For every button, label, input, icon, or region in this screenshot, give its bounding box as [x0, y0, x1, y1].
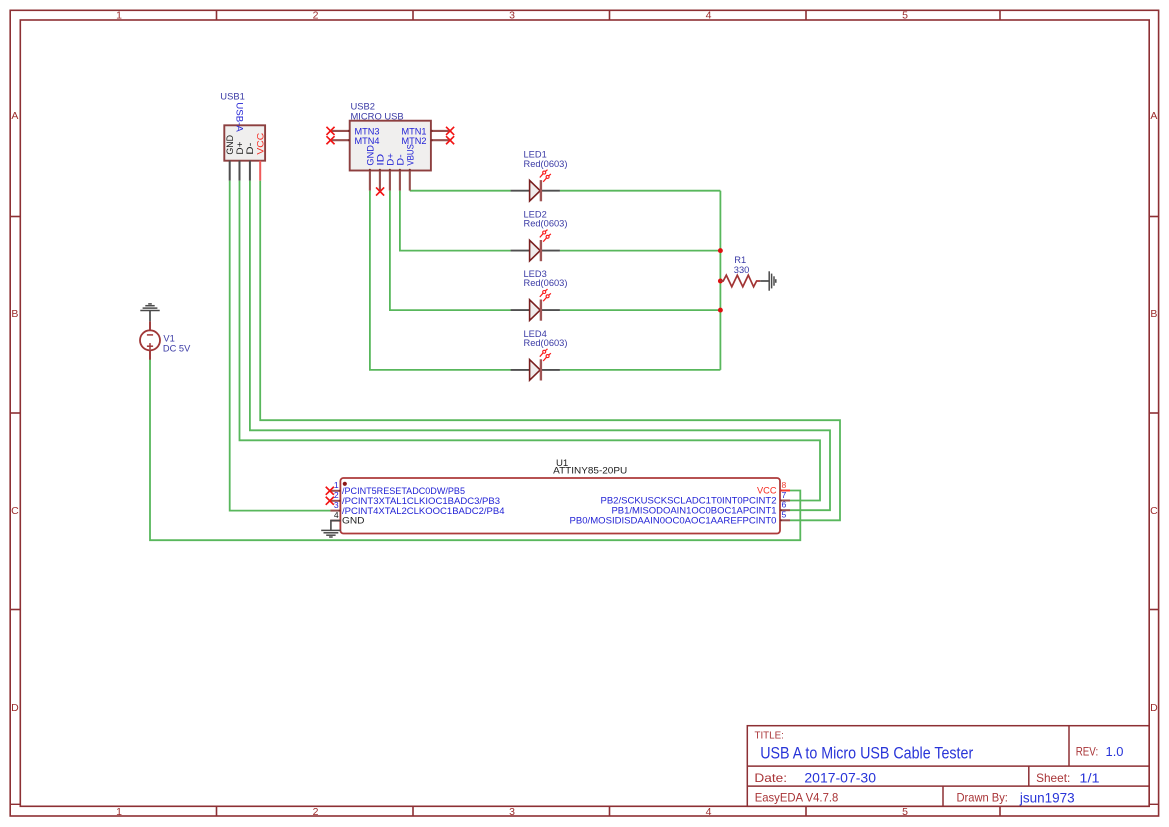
svg-text:USB-A: USB-A [234, 102, 245, 132]
svg-text:3: 3 [509, 806, 515, 818]
svg-text:ID: ID [375, 153, 385, 165]
svg-text:5: 5 [902, 10, 908, 22]
svg-text:330: 330 [734, 265, 750, 275]
svg-text:VCC: VCC [256, 132, 266, 154]
svg-text:GND: GND [365, 145, 375, 166]
svg-text:6: 6 [782, 500, 787, 510]
svg-text:2: 2 [334, 490, 339, 500]
svg-text:D-: D- [395, 154, 405, 165]
svg-text:VCC: VCC [757, 486, 777, 496]
svg-text:D: D [1150, 702, 1158, 714]
svg-text:jsun1973: jsun1973 [1019, 791, 1075, 806]
svg-text:REV:: REV: [1076, 744, 1099, 758]
svg-text:MTN4: MTN4 [355, 136, 380, 146]
svg-text:C: C [1150, 505, 1158, 517]
svg-text:5: 5 [782, 510, 787, 520]
svg-text:D+: D+ [235, 142, 245, 155]
svg-text:Date:: Date: [754, 771, 787, 785]
svg-text:USB A to Micro USB Cable Teste: USB A to Micro USB Cable Tester [760, 744, 973, 763]
svg-text:4: 4 [334, 510, 339, 520]
svg-text:GND: GND [225, 135, 235, 155]
svg-text:V1: V1 [163, 333, 174, 343]
svg-text:MTN1: MTN1 [401, 126, 426, 136]
svg-text:Red(0603): Red(0603) [524, 159, 568, 169]
svg-text:5: 5 [902, 806, 908, 818]
svg-text:1: 1 [116, 10, 122, 22]
svg-text:B: B [11, 308, 18, 320]
svg-text:2: 2 [313, 10, 319, 22]
svg-text:DC 5V: DC 5V [163, 344, 191, 354]
svg-text:3: 3 [509, 10, 515, 22]
svg-text:B: B [1150, 308, 1157, 320]
svg-text:C: C [11, 505, 19, 517]
svg-text:D-: D- [245, 143, 255, 155]
svg-text:1/1: 1/1 [1079, 771, 1099, 786]
svg-text:Red(0603): Red(0603) [524, 278, 568, 288]
svg-text:D: D [11, 702, 19, 714]
svg-text:Red(0603): Red(0603) [524, 219, 568, 229]
svg-text:8: 8 [782, 480, 787, 490]
svg-text:A: A [11, 110, 18, 122]
svg-text:Red(0603): Red(0603) [524, 338, 568, 348]
svg-text:A: A [1150, 110, 1157, 122]
svg-text:MTN3: MTN3 [355, 126, 380, 136]
svg-text:MICRO USB: MICRO USB [351, 111, 404, 122]
svg-text:D+: D+ [385, 153, 395, 166]
svg-text:/PCINT4XTAL2CLKOOC1BADC2/PB4: /PCINT4XTAL2CLKOOC1BADC2/PB4 [342, 506, 505, 516]
svg-text:1: 1 [334, 480, 339, 490]
svg-text:Drawn By:: Drawn By: [957, 791, 1008, 805]
svg-text:2: 2 [313, 806, 319, 818]
svg-text:VBUS: VBUS [405, 144, 415, 166]
svg-text:/PCINT3XTAL1CLKIOC1BADC3/PB3: /PCINT3XTAL1CLKIOC1BADC3/PB3 [342, 496, 500, 506]
svg-text:PB1/MISODOAIN1OC0BOC1APCINT1: PB1/MISODOAIN1OC0BOC1APCINT1 [612, 506, 777, 516]
svg-text:USB1: USB1 [220, 91, 245, 102]
svg-text:TITLE:: TITLE: [755, 730, 784, 741]
svg-text:4: 4 [706, 10, 712, 22]
svg-text:GND: GND [342, 516, 365, 526]
svg-text:Sheet:: Sheet: [1036, 771, 1070, 785]
svg-text:/PCINT5RESETADC0DW/PB5: /PCINT5RESETADC0DW/PB5 [342, 486, 465, 496]
svg-text:PB2/SCKUSCKSCLADC1T0INT0PCINT2: PB2/SCKUSCKSCLADC1T0INT0PCINT2 [601, 496, 777, 506]
svg-text:4: 4 [706, 806, 712, 818]
svg-text:1: 1 [116, 806, 122, 818]
svg-text:PB0/MOSIDISDAAIN0OC0AOC1AAREFP: PB0/MOSIDISDAAIN0OC0AOC1AAREFPCINT0 [570, 516, 777, 526]
svg-text:EasyEDA V4.7.8: EasyEDA V4.7.8 [755, 791, 839, 805]
svg-text:2017-07-30: 2017-07-30 [804, 771, 876, 786]
svg-text:1.0: 1.0 [1106, 744, 1124, 759]
svg-text:ATTINY85-20PU: ATTINY85-20PU [553, 466, 627, 477]
svg-text:7: 7 [782, 490, 787, 500]
svg-text:3: 3 [334, 500, 339, 510]
svg-text:R1: R1 [734, 255, 746, 265]
